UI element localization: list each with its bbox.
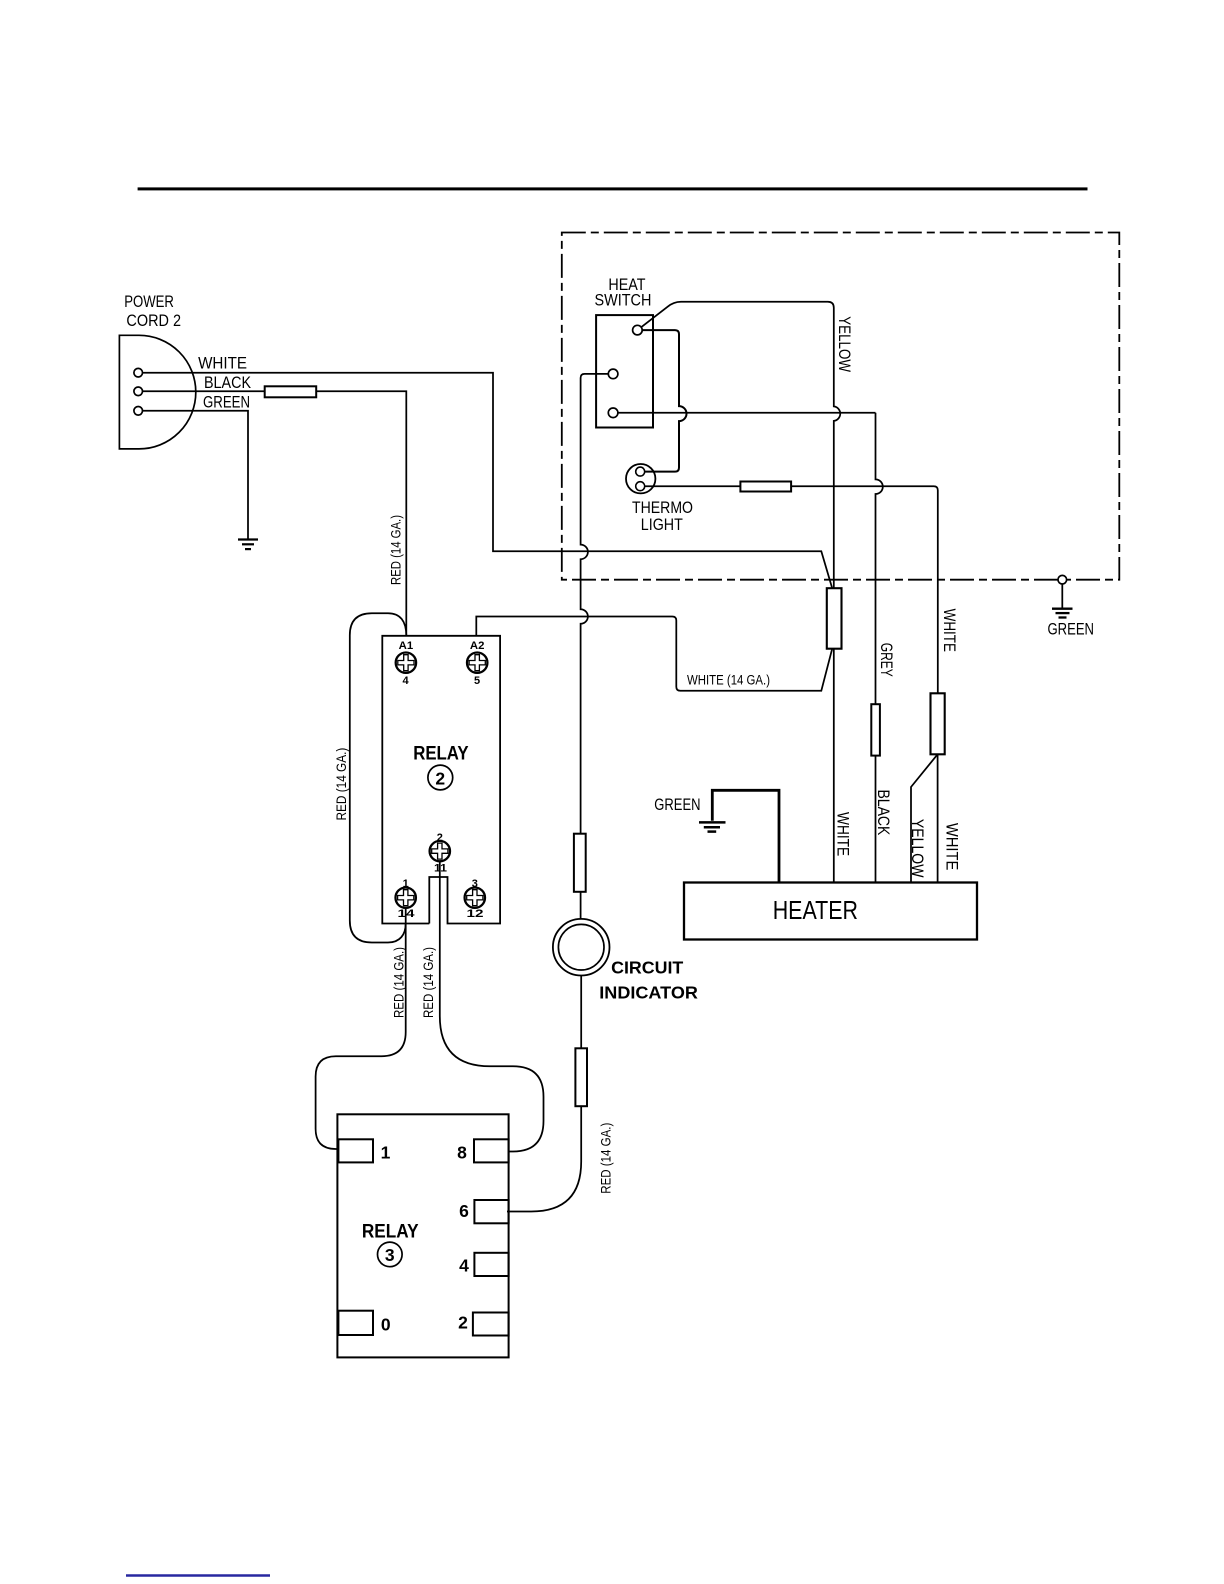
svg-text:RELAY: RELAY bbox=[362, 1221, 419, 1242]
svg-text:3: 3 bbox=[385, 1245, 395, 1265]
relay 3 pin labels bbox=[381, 1142, 470, 1334]
wire RED (14 GA.): fuse to relay 2 A1 bbox=[316, 391, 406, 636]
fuse on black wire bbox=[265, 386, 317, 397]
svg-text:RED (14 GA.): RED (14 GA.) bbox=[389, 515, 404, 585]
svg-text:BLACK: BLACK bbox=[874, 789, 892, 835]
node: green ground terminal on boundary bbox=[1058, 575, 1067, 584]
svg-text:2: 2 bbox=[458, 1313, 468, 1333]
svg-text:3: 3 bbox=[472, 878, 478, 890]
wire BLACK: power cord to fuse bbox=[143, 390, 265, 392]
svg-text:GREEN: GREEN bbox=[1048, 621, 1095, 639]
relay 3 terminal 2 bbox=[473, 1313, 509, 1336]
svg-text:12: 12 bbox=[467, 908, 484, 920]
label CIRCUIT INDICATOR bbox=[599, 958, 698, 1003]
wire: heat switch middle terminal to indicator column bbox=[581, 374, 609, 834]
wire WHITE: thermo light to right splice bbox=[645, 486, 938, 693]
dash-dot enclosure boundary bbox=[562, 233, 1120, 580]
svg-text:HEATER: HEATER bbox=[773, 897, 858, 925]
svg-text:LIGHT: LIGHT bbox=[641, 516, 683, 534]
splice on white column (right) bbox=[931, 693, 945, 754]
label HEAT SWITCH bbox=[595, 276, 652, 310]
relay 3 terminal 6 bbox=[474, 1200, 508, 1223]
title rule bbox=[138, 187, 1088, 190]
svg-text:CIRCUIT: CIRCUIT bbox=[611, 958, 684, 978]
wire: heat switch bottom terminal to grey column bbox=[618, 412, 876, 414]
fuse below circuit indicator bbox=[575, 1048, 587, 1106]
wire GREY: heat switch bottom wire down to fuse bbox=[876, 413, 883, 704]
svg-text:GREY: GREY bbox=[877, 643, 895, 677]
ground symbol (heater green) bbox=[699, 822, 726, 831]
screw terminal 2/11 bbox=[430, 841, 450, 861]
svg-text:8: 8 bbox=[457, 1142, 467, 1162]
power cord terminal pin (black) bbox=[134, 387, 143, 396]
svg-text:WHITE: WHITE bbox=[834, 812, 852, 856]
svg-text:YELLOW: YELLOW bbox=[908, 819, 926, 878]
svg-text:CORD 2: CORD 2 bbox=[126, 312, 181, 330]
svg-text:GREEN: GREEN bbox=[203, 394, 250, 412]
ground symbol (power cord green) bbox=[238, 540, 258, 550]
heat switch terminal (middle) bbox=[608, 369, 618, 379]
circuit indicator lamp bbox=[553, 919, 610, 976]
wire GREEN: heater to chassis ground bbox=[712, 790, 779, 882]
svg-text:1: 1 bbox=[381, 1142, 391, 1162]
svg-text:A1: A1 bbox=[399, 640, 414, 652]
svg-text:1: 1 bbox=[403, 878, 409, 890]
wire YELLOW: splice to heater (diagonal) bbox=[911, 754, 938, 882]
svg-text:POWER: POWER bbox=[124, 293, 174, 311]
relay 3 terminal 8 bbox=[474, 1139, 509, 1162]
power cord 2 connector body bbox=[119, 335, 195, 449]
wire WHITE: splice to heater (straight) bbox=[937, 754, 939, 882]
wire BLACK: fuse to heater bbox=[875, 756, 877, 883]
svg-text:5: 5 bbox=[474, 675, 480, 687]
thermo light pin (top) bbox=[636, 467, 645, 476]
svg-text:14: 14 bbox=[398, 908, 416, 920]
label POWER CORD 2 bbox=[124, 293, 251, 412]
wire RED (14 GA.): relay2 pin 14 to relay3 pin 1 bbox=[316, 908, 406, 1149]
wire RED (14 GA.) loop: A1 to terminal 1 bbox=[350, 613, 407, 942]
svg-text:THERMO: THERMO bbox=[632, 499, 693, 517]
wire RED (14 GA.): relay2 pin 11 to relay3 pin 8 bbox=[440, 861, 544, 1151]
wire: heat switch top terminal to thermo light bbox=[642, 330, 686, 472]
svg-text:BLACK: BLACK bbox=[204, 374, 251, 392]
svg-text:4: 4 bbox=[459, 1255, 469, 1275]
screw terminal 3/12 bbox=[465, 888, 485, 908]
wire RED (14 GA.): indicator to fuse below bbox=[580, 976, 582, 1049]
relay 3 body bbox=[337, 1114, 508, 1357]
svg-text:RED (14 GA.): RED (14 GA.) bbox=[334, 748, 349, 821]
screw terminal A2/5 bbox=[467, 653, 487, 673]
wire WHITE: power cord to splice (14 GA) bbox=[143, 373, 833, 589]
wire GREEN: power cord to ground bbox=[143, 411, 249, 539]
splice on yellow/white column bbox=[827, 588, 842, 649]
svg-text:A2: A2 bbox=[470, 640, 485, 652]
screw terminal A1/4 bbox=[396, 653, 416, 673]
fuse above circuit indicator bbox=[574, 834, 586, 892]
svg-text:RELAY: RELAY bbox=[413, 744, 469, 765]
svg-text:4: 4 bbox=[402, 675, 409, 687]
heater bbox=[684, 883, 977, 940]
thermo light pin (bottom) bbox=[636, 482, 645, 491]
relay 2 pin labels bbox=[398, 640, 485, 920]
wire: terminal to ground bbox=[1061, 584, 1063, 608]
svg-text:RED (14 GA.): RED (14 GA.) bbox=[598, 1123, 613, 1194]
svg-text:WHITE: WHITE bbox=[943, 823, 961, 871]
fuse on thermo light wire bbox=[740, 482, 791, 492]
svg-text:2: 2 bbox=[435, 768, 445, 788]
wire WHITE (14 GA.): splice to relay 2 A2 bbox=[476, 617, 832, 691]
wire WHITE: splice output to heater bbox=[833, 649, 835, 883]
heat switch body bbox=[596, 315, 653, 427]
power cord terminal pin (green) bbox=[134, 407, 143, 416]
label THERMO LIGHT bbox=[632, 499, 693, 534]
svg-text:INDICATOR: INDICATOR bbox=[599, 983, 698, 1003]
relay 3 terminal 0 bbox=[338, 1311, 373, 1335]
wire: fuse to circuit indicator bbox=[580, 892, 582, 919]
svg-text:WHITE (14 GA.): WHITE (14 GA.) bbox=[687, 673, 770, 688]
svg-text:RED (14 GA.): RED (14 GA.) bbox=[421, 947, 436, 1018]
heat switch terminal (bottom) bbox=[608, 408, 618, 418]
svg-text:6: 6 bbox=[459, 1201, 469, 1221]
fuse on grey/black column bbox=[871, 704, 880, 755]
wire RED (14 GA.): fuse to relay3 pin 6 bbox=[507, 1106, 581, 1211]
heat switch terminal (top) bbox=[633, 325, 643, 335]
relay 3 terminal 4 bbox=[474, 1253, 508, 1276]
svg-text:WHITE: WHITE bbox=[198, 354, 247, 372]
power cord terminal pin (white) bbox=[134, 368, 143, 377]
svg-text:SWITCH: SWITCH bbox=[595, 291, 652, 309]
footer link line bbox=[126, 1574, 270, 1576]
thermo light body bbox=[626, 464, 655, 493]
screw terminal 1/14 bbox=[396, 888, 416, 908]
svg-text:WHITE: WHITE bbox=[940, 609, 958, 652]
svg-text:0: 0 bbox=[381, 1315, 391, 1335]
ground symbol (enclosure green) bbox=[1052, 609, 1073, 618]
svg-text:RED (14 GA.): RED (14 GA.) bbox=[392, 947, 407, 1018]
svg-text:GREEN: GREEN bbox=[654, 796, 700, 814]
relay 3 terminal 1 bbox=[338, 1139, 373, 1162]
relay 2 body (with bottom notch) bbox=[382, 636, 500, 924]
svg-text:2: 2 bbox=[437, 832, 443, 844]
svg-text:YELLOW: YELLOW bbox=[835, 316, 853, 372]
wire YELLOW: heat switch top terminal to splice, via top run bbox=[641, 302, 840, 589]
